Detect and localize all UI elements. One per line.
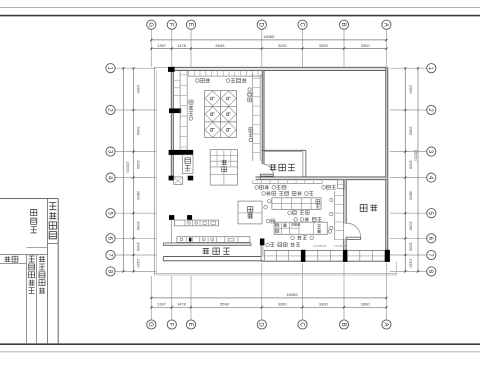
svg-text:3300: 3300 [136,126,141,136]
svg-text:E: E [187,322,193,326]
column F/4 [169,176,175,181]
svg-text:2000: 2000 [409,221,414,231]
south wall of front section [163,257,263,261]
svg-text:G: G [147,22,153,27]
svg-text:C: C [298,322,304,327]
bottom segment dimension line [150,302,387,309]
disinfect cabinet label [195,78,210,82]
water dispenser label [226,78,246,82]
wall stub below bathroom door [260,176,263,180]
bathroom north wall [262,150,306,151]
left segment dimension line [132,67,141,272]
kitchen label: rack right [322,185,336,189]
svg-text:2800: 2800 [136,191,141,201]
wall stub below column F/5 [171,220,173,243]
top segment dimension line [150,43,387,50]
column B/south [343,250,348,262]
svg-text:2000: 2000 [136,160,141,170]
svg-text:B: B [340,322,346,326]
sheet bottom thin line [0,351,480,353]
dining table grid [205,91,237,138]
svg-text:3300: 3300 [319,302,329,307]
service kiosk box [238,201,262,224]
bottom overall dimension line 18365 [150,292,387,299]
right segment dimension line [404,67,413,272]
bathroom east wall [303,150,306,177]
svg-text:3245: 3245 [278,43,288,48]
restaurant name text (rotated) [203,248,230,254]
kitchen shelf along warehouse wall [330,191,344,240]
svg-text:2800: 2800 [409,191,414,201]
apron west double line [155,67,171,276]
kitchen work table 1 [268,198,322,210]
sheet top thick line [0,15,480,17]
south window mullions [264,250,372,261]
bottom axis extension lines [151,263,386,320]
drink cabinet label (vertical) [189,100,193,120]
right axis circles [427,64,436,276]
column C/south [301,250,306,262]
kitchen label row: wash/disinfect [262,191,313,195]
svg-text:C: C [298,23,304,28]
svg-text:E: E [187,23,193,27]
south window wall outer line [261,250,390,261]
kitchen label row: goods entry [266,243,300,247]
window label (vertical) [249,128,253,142]
bathroom door leaf [260,174,273,176]
svg-text:2000: 2000 [136,221,141,231]
svg-text:5590: 5590 [220,302,230,307]
svg-text:A: A [382,322,388,326]
svg-text:3300: 3300 [136,85,141,95]
kitchen and warehouse north wall [256,177,386,180]
svg-text:1234576: 1234576 [334,244,346,248]
svg-text:1478: 1478 [177,43,187,48]
svg-text:D: D [258,322,264,327]
column at G/1 [168,67,175,72]
title text: business area (vertical) [39,256,45,294]
kitchen label left: fridge [266,219,275,223]
kitchen work table 2 [274,222,332,234]
svg-text:F: F [168,323,174,327]
svg-text:3300: 3300 [361,43,371,48]
svg-text:1500: 1500 [136,242,141,252]
svg-text:3300: 3300 [409,85,414,95]
left axis extension lines [115,68,156,271]
svg-text:3300: 3300 [278,302,288,307]
display case at axis 4 [174,177,183,185]
kitchen counter along north wall [253,180,323,184]
fish tank label (vertical) [248,88,252,102]
top axis circles [147,20,391,29]
drink cabinet ladder shelf (west) [180,70,187,150]
right axis extension lines [390,68,427,271]
svg-text:F: F [168,23,174,27]
column A/south [385,250,390,262]
svg-text:1320: 1320 [409,259,414,269]
top overall dimension line 18365 [150,34,387,41]
warehouse door leaf [346,237,361,239]
label near table1 left [264,205,268,209]
svg-text:G: G [147,322,153,327]
kitchen label row: steam cabinet [294,217,322,221]
dining east wall [262,70,264,164]
column at F/2 [169,108,181,113]
svg-text:5645: 5645 [216,43,226,48]
svg-text:3300: 3300 [319,43,329,48]
west exterior wall upper [171,67,173,178]
kitchen label row: stoves [255,185,286,189]
service stair block [210,150,237,186]
apron south line [155,262,397,275]
svg-text:3300: 3300 [361,302,371,307]
bottom axis circles [147,320,391,329]
right overall dimension line 16220 [414,67,420,272]
coffee counter upper row [174,220,218,226]
south wall corner stub at D [261,245,263,261]
bathroom label [270,164,295,171]
title text: project name (vertical) [49,203,56,239]
bathroom door swing arc [264,164,274,174]
kitchen label row: exhaust [291,236,314,240]
svg-text:2000: 2000 [409,160,414,170]
svg-text:1320: 1320 [136,259,141,269]
kitchen label row: pastry [288,211,309,215]
column E/5 [187,215,192,220]
svg-text:3300: 3300 [409,126,414,136]
front counter bar [163,243,251,246]
left axis circles [106,64,115,276]
east exterior wall [386,67,388,261]
upper shelf cells near west wall [173,80,180,95]
svg-text:1500: 1500 [409,242,414,252]
title block frame [0,199,58,345]
svg-text:12345678: 12345678 [313,244,327,248]
long bench along north wall [188,70,262,76]
column D/south [260,239,265,246]
warehouse door swing arc [346,223,361,237]
wall pier at axis 3 [169,150,194,155]
title text: notes [5,256,18,262]
svg-text:16220: 16220 [414,149,419,161]
svg-text:1397: 1397 [157,43,167,48]
sheet top thin line [0,7,480,9]
left overall dimension line 16220 [122,67,130,272]
svg-text:1478: 1478 [177,302,187,307]
svg-text:A: A [382,23,388,27]
front counter equipment row [177,237,250,243]
svg-text:B: B [340,23,346,27]
top axis extension lines [151,29,386,66]
sheet bottom thick line [0,343,480,345]
svg-text:16220: 16220 [126,161,131,173]
svg-text:18365: 18365 [263,34,275,39]
title text: drawing name (vertical) [31,210,37,233]
title text: building area (vertical) [29,256,35,294]
svg-text:1397: 1397 [157,302,167,307]
svg-text:18365: 18365 [286,292,298,297]
electrical shaft box [182,155,193,174]
warehouse west wall lower stub [344,239,347,251]
svg-text:D: D [258,23,264,28]
column E/4 [188,176,194,181]
column F/5 [169,215,174,220]
warehouse west wall upper [344,180,347,224]
warehouse label [360,205,377,212]
small cabinet at warehouse wall top [338,180,345,189]
fish tank ladder shelf (east) [253,74,261,161]
north exterior wall [171,67,388,70]
